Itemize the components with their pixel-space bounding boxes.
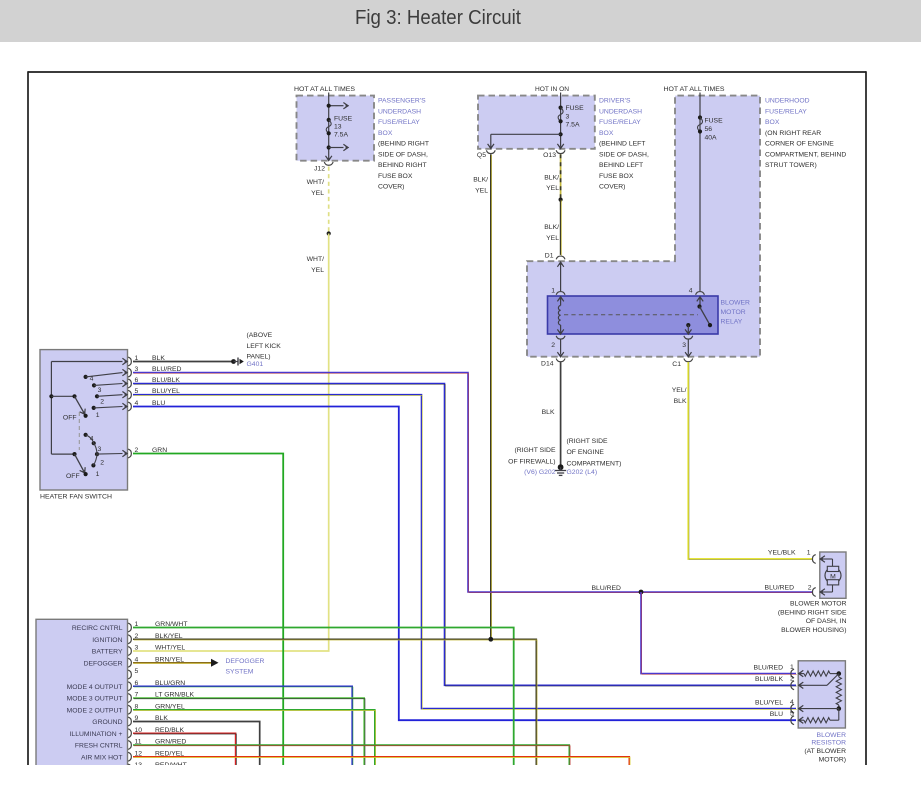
svg-text:IGNITION: IGNITION (92, 637, 122, 644)
svg-text:BLK/: BLK/ (544, 174, 559, 181)
svg-text:3: 3 (566, 114, 570, 121)
svg-text:OF DASH, IN: OF DASH, IN (806, 618, 847, 625)
svg-text:MOTOR: MOTOR (721, 309, 746, 316)
svg-text:(ABOVE: (ABOVE (247, 332, 273, 339)
svg-text:Fig 3: Heater Circuit: Fig 3: Heater Circuit (355, 6, 521, 29)
svg-text:OFF: OFF (63, 415, 77, 422)
svg-text:MOTOR): MOTOR) (819, 756, 846, 763)
svg-text:BOX: BOX (765, 119, 780, 126)
svg-text:(ON RIGHT REAR: (ON RIGHT REAR (765, 130, 821, 137)
svg-text:WHT/: WHT/ (307, 179, 324, 186)
svg-text:G401: G401 (247, 361, 264, 368)
svg-text:3: 3 (682, 342, 686, 349)
svg-text:STRUT TOWER): STRUT TOWER) (765, 162, 817, 169)
svg-text:FUSE/RELAY: FUSE/RELAY (599, 119, 641, 126)
svg-text:FUSE: FUSE (334, 115, 353, 122)
svg-text:BLOWER MOTOR: BLOWER MOTOR (790, 601, 847, 608)
svg-text:FUSE/RELAY: FUSE/RELAY (378, 119, 420, 126)
svg-text:FUSE: FUSE (705, 118, 724, 125)
svg-text:(BEHIND RIGHT: (BEHIND RIGHT (378, 141, 429, 148)
svg-text:BLU/RED: BLU/RED (754, 664, 784, 671)
svg-text:MODE 4 OUTPUT: MODE 4 OUTPUT (67, 684, 123, 691)
svg-text:FUSE BOX: FUSE BOX (599, 173, 634, 180)
svg-text:1: 1 (96, 412, 100, 419)
svg-text:AIR MIX HOT: AIR MIX HOT (81, 754, 123, 761)
svg-text:4: 4 (90, 375, 94, 382)
svg-text:FUSE/RELAY: FUSE/RELAY (765, 108, 807, 115)
svg-text:(BEHIND RIGHT SIDE: (BEHIND RIGHT SIDE (778, 609, 847, 616)
svg-text:SIDE OF DASH,: SIDE OF DASH, (599, 151, 649, 158)
svg-text:56: 56 (705, 126, 713, 133)
svg-text:DEFOGGER: DEFOGGER (226, 658, 265, 665)
svg-text:CORNER OF ENGINE: CORNER OF ENGINE (765, 141, 834, 148)
svg-text:2: 2 (551, 342, 555, 349)
svg-text:HOT AT ALL TIMES: HOT AT ALL TIMES (664, 86, 725, 93)
svg-text:COMPARTMENT, BEHIND: COMPARTMENT, BEHIND (765, 151, 846, 158)
svg-text:13: 13 (334, 124, 342, 131)
svg-text:YEL: YEL (546, 185, 559, 192)
svg-text:1: 1 (807, 550, 811, 557)
svg-text:GROUND: GROUND (92, 719, 122, 726)
svg-text:YEL/BLK: YEL/BLK (768, 550, 796, 557)
svg-text:BOX: BOX (378, 130, 393, 137)
svg-text:PASSENGER'S: PASSENGER'S (378, 98, 426, 105)
svg-text:D14: D14 (541, 361, 554, 368)
svg-text:4: 4 (689, 288, 693, 295)
svg-text:DEFOGGER: DEFOGGER (84, 660, 123, 667)
svg-text:C1: C1 (672, 361, 681, 368)
svg-text:HOT AT ALL TIMES: HOT AT ALL TIMES (294, 86, 355, 93)
svg-text:5: 5 (135, 668, 139, 675)
svg-text:BLU: BLU (770, 711, 783, 718)
svg-text:SIDE OF DASH,: SIDE OF DASH, (378, 151, 428, 158)
svg-text:YEL: YEL (546, 235, 559, 242)
svg-text:UNDERDASH: UNDERDASH (599, 108, 642, 115)
svg-text:BLOWER: BLOWER (721, 300, 751, 307)
svg-text:UNDERDASH: UNDERDASH (378, 108, 421, 115)
svg-text:(V6) G202: (V6) G202 (524, 469, 556, 476)
svg-text:ILLUMINATION +: ILLUMINATION + (70, 731, 123, 738)
svg-text:SYSTEM: SYSTEM (226, 669, 254, 676)
svg-text:COVER): COVER) (378, 184, 404, 191)
svg-text:(RIGHT SIDE: (RIGHT SIDE (514, 447, 556, 454)
svg-text:G202 (L4): G202 (L4) (567, 469, 598, 476)
svg-text:40A: 40A (705, 135, 718, 142)
svg-text:4: 4 (90, 436, 94, 443)
svg-text:1: 1 (96, 471, 100, 478)
svg-text:LEFT KICK: LEFT KICK (247, 343, 282, 350)
svg-text:M: M (830, 574, 836, 581)
svg-text:OF ENGINE: OF ENGINE (567, 449, 605, 456)
svg-text:BLK: BLK (542, 409, 555, 416)
svg-text:FUSE BOX: FUSE BOX (378, 173, 413, 180)
svg-text:DRIVER'S: DRIVER'S (599, 98, 631, 105)
svg-text:UNDERHOOD: UNDERHOOD (765, 98, 810, 105)
svg-text:BLU/YEL: BLU/YEL (755, 700, 783, 707)
svg-text:7.5A: 7.5A (334, 131, 348, 138)
svg-text:1: 1 (790, 664, 794, 671)
svg-text:HEATER FAN SWITCH: HEATER FAN SWITCH (40, 494, 112, 501)
svg-text:BLOWER HOUSING): BLOWER HOUSING) (781, 627, 846, 634)
svg-text:1: 1 (551, 288, 555, 295)
svg-text:OF FIREWALL): OF FIREWALL) (508, 458, 555, 465)
svg-text:BLK: BLK (674, 398, 687, 405)
svg-text:RELAY: RELAY (721, 319, 743, 326)
svg-text:BLOWER: BLOWER (817, 732, 847, 739)
svg-text:PANEL): PANEL) (247, 354, 271, 361)
svg-text:YEL/: YEL/ (672, 387, 687, 394)
svg-text:RECIRC CNTRL: RECIRC CNTRL (72, 625, 123, 632)
svg-text:OFF: OFF (66, 473, 80, 480)
svg-text:YEL: YEL (311, 190, 324, 197)
svg-text:WHT/YEL: WHT/YEL (155, 645, 185, 652)
svg-text:2: 2 (100, 460, 104, 467)
svg-text:HOT IN ON: HOT IN ON (535, 86, 569, 93)
svg-text:YEL: YEL (311, 267, 324, 274)
svg-text:BATTERY: BATTERY (92, 649, 123, 656)
svg-text:4: 4 (790, 699, 794, 706)
svg-text:BLU/RED: BLU/RED (765, 585, 795, 592)
svg-text:5: 5 (790, 711, 794, 718)
svg-text:BLU/RED: BLU/RED (592, 585, 622, 592)
svg-text:O13: O13 (543, 152, 556, 159)
svg-text:(RIGHT SIDE: (RIGHT SIDE (567, 438, 609, 445)
svg-text:(BEHIND LEFT: (BEHIND LEFT (599, 141, 645, 148)
svg-text:D1: D1 (545, 252, 554, 259)
svg-text:3: 3 (135, 645, 139, 652)
svg-text:2: 2 (100, 398, 104, 405)
svg-text:COMPARTMENT): COMPARTMENT) (567, 460, 622, 467)
svg-text:COVER): COVER) (599, 184, 625, 191)
svg-text:3: 3 (98, 446, 102, 453)
svg-text:2: 2 (790, 676, 794, 683)
svg-text:FUSE: FUSE (566, 105, 585, 112)
svg-text:Q5: Q5 (477, 152, 486, 159)
svg-text:BOX: BOX (599, 130, 614, 137)
svg-text:RESISTOR: RESISTOR (811, 740, 846, 747)
svg-text:FRESH CNTRL: FRESH CNTRL (75, 743, 123, 750)
svg-text:3: 3 (98, 387, 102, 394)
svg-text:(AT BLOWER: (AT BLOWER (804, 748, 846, 755)
svg-text:WHT/: WHT/ (307, 256, 324, 263)
svg-text:7.5A: 7.5A (566, 122, 580, 129)
svg-text:2: 2 (808, 585, 812, 592)
svg-text:BEHIND RIGHT: BEHIND RIGHT (378, 162, 427, 169)
svg-text:BLK/: BLK/ (544, 224, 559, 231)
svg-text:BLU/BLK: BLU/BLK (755, 676, 783, 683)
svg-text:MODE 3 OUTPUT: MODE 3 OUTPUT (67, 696, 123, 703)
svg-text:BEHIND LEFT: BEHIND LEFT (599, 162, 643, 169)
svg-text:J12: J12 (314, 166, 325, 173)
svg-text:MODE 2 OUTPUT: MODE 2 OUTPUT (67, 707, 123, 714)
svg-text:BLK/: BLK/ (473, 177, 488, 184)
svg-text:YEL: YEL (475, 187, 488, 194)
